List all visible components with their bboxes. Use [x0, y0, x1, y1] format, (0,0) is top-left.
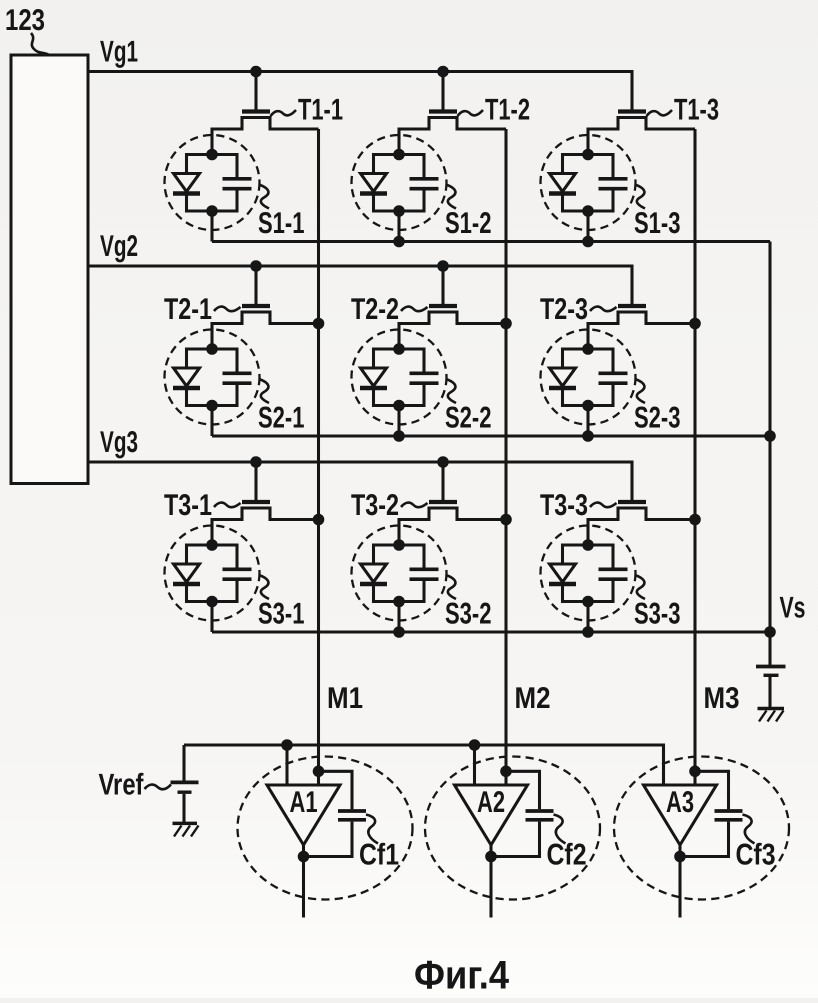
capacitor S1-3 top lead — [611, 153, 614, 178]
capacitor S3-1 top lead — [235, 544, 238, 569]
squiggle Cf1 — [366, 815, 378, 844]
wire S1-2 top branch — [374, 153, 425, 156]
label T3-3 — [540, 489, 588, 522]
node dot S1-1 top — [206, 149, 218, 161]
photodiode S1-2 cathode lead — [372, 196, 375, 213]
node dot T2-3 drain to M3 — [689, 318, 701, 330]
svg-text:T3-3: T3-3 — [540, 489, 588, 522]
wire S1-3 top branch — [563, 153, 614, 156]
ground Vref hatches — [174, 826, 199, 837]
svg-text:T2-2: T2-2 — [351, 293, 399, 326]
capacitor Cf3 top plate — [715, 809, 743, 813]
wire S2-2 top branch — [374, 347, 425, 350]
wire S2-1 top branch — [187, 347, 238, 350]
photodiode S3-3 cathode lead — [561, 586, 564, 603]
label Cf1 — [359, 839, 399, 872]
wire S3-2 top branch — [374, 543, 425, 546]
photodiode S2-3 cathode lead — [561, 390, 564, 407]
photodiode S1-1 cathode bar — [173, 191, 200, 195]
node dot Vg2-col1 — [250, 260, 262, 272]
svg-text:Cf1: Cf1 — [359, 839, 399, 872]
svg-text:S3-1: S3-1 — [258, 598, 305, 631]
node dot S1-2 top — [393, 149, 405, 161]
wire S3-2 bottom stem — [397, 602, 400, 633]
label S3-2 — [445, 598, 492, 631]
label S3-3 — [634, 598, 681, 631]
node dot T3-3 drain to M3 — [689, 514, 701, 526]
svg-text:S1-3: S1-3 — [634, 207, 681, 240]
wire A2 output — [489, 845, 492, 918]
capacitor S2-2 top lead — [422, 348, 425, 373]
capacitor Cf1 bottom plate — [338, 818, 366, 822]
op-amp A1 triangle — [267, 785, 340, 845]
battery Vref long plate — [171, 781, 199, 785]
svg-text:T2-1: T2-1 — [164, 293, 212, 326]
node dot S3-1 bottom — [206, 596, 218, 608]
wire S1-3 bottom stem — [586, 211, 589, 242]
wire Vref battery to ground — [182, 794, 185, 822]
transistor T2-1 gate bar — [242, 304, 270, 308]
label S1-2 — [445, 207, 492, 240]
node dot S3-3 top — [582, 539, 594, 551]
sensor S1-3 dashed circle — [541, 135, 636, 230]
svg-text:Cf2: Cf2 — [547, 839, 587, 872]
capacitor S3-2 bottom plate — [410, 577, 439, 581]
photodiode S2-2 anode lead — [372, 348, 375, 369]
transistor T1-2 gate bar — [429, 109, 457, 113]
squiggle Cf3 — [743, 815, 755, 844]
svg-text:T1-2: T1-2 — [485, 94, 530, 127]
capacitor Cf1 top plate — [338, 809, 366, 813]
label M3 — [704, 682, 740, 715]
wire M1 column line — [317, 129, 320, 785]
squiggle Cf2 — [554, 815, 566, 844]
battery Vs short plate — [764, 674, 779, 677]
squiggle S2-2 — [446, 379, 456, 403]
capacitor S2-3 bottom plate — [599, 381, 628, 385]
svg-text:M1: M1 — [327, 682, 363, 715]
squiggle S3-3 — [635, 575, 645, 599]
sensor S1-1 dashed circle — [165, 135, 260, 230]
svg-text:Vg3: Vg3 — [100, 426, 138, 459]
ground Vref bar — [173, 822, 198, 826]
wire S2-2 bottom branch — [374, 404, 425, 407]
wire S1-2 bottom stem — [397, 211, 400, 242]
sensor S2-3 dashed circle — [541, 330, 636, 425]
photodiode S3-2 cathode lead — [372, 586, 375, 603]
capacitor S3-2 top plate — [410, 567, 439, 571]
capacitor S3-3 bottom lead — [611, 581, 614, 603]
wire gate stem T1-1 — [254, 72, 257, 110]
node dot S3-2 bottom — [393, 596, 405, 608]
node dot S2-3 bottom — [582, 400, 594, 412]
label A3 — [666, 786, 694, 819]
photodiode S3-1 triangle — [174, 564, 200, 582]
squiggle T1-1 — [271, 110, 297, 116]
squiggle S2-3 — [635, 379, 645, 403]
svg-text:T3-2: T3-2 — [351, 489, 399, 522]
node dot S3-3 bottom — [582, 596, 594, 608]
label S1-3 — [634, 207, 681, 240]
squiggle T1-3 — [647, 110, 673, 116]
wire sensor-bias row 1 — [212, 240, 770, 243]
photodiode S3-2 anode lead — [372, 544, 375, 565]
label Vg2 — [100, 230, 138, 263]
svg-text:S3-2: S3-2 — [445, 598, 492, 631]
svg-text:T1-3: T1-3 — [674, 94, 719, 127]
capacitor S2-3 top lead — [611, 348, 614, 373]
capacitor S1-3 bottom plate — [599, 187, 628, 191]
svg-text:T1-1: T1-1 — [298, 94, 343, 127]
node dot S1-2 bottom — [393, 205, 405, 217]
wire S3-2 bottom branch — [374, 600, 425, 603]
wire Cf3 feedback bottom — [680, 822, 729, 857]
node dot S1-1 bottom — [206, 205, 218, 217]
photodiode S2-3 triangle — [550, 368, 576, 386]
capacitor S3-3 bottom plate — [599, 577, 628, 581]
wire M2 column line — [504, 129, 507, 785]
wire S3-1 bottom branch — [187, 600, 238, 603]
capacitor S3-1 top plate — [223, 567, 252, 571]
capacitor S2-3 bottom lead — [611, 385, 614, 407]
label S2-1 — [258, 402, 305, 435]
node dot A3 output — [674, 851, 686, 863]
capacitor S2-3 top plate — [599, 371, 628, 375]
svg-text:T2-3: T2-3 — [540, 293, 588, 326]
label T1-2 — [485, 94, 530, 127]
wire Cf2 feedback top — [506, 771, 540, 809]
wire gate stem T2-2 — [441, 266, 444, 304]
label T1-3 — [674, 94, 719, 127]
node dot S1-3 bottom — [582, 205, 594, 217]
capacitor S3-2 top lead — [422, 544, 425, 569]
op-amp A2 triangle — [455, 785, 528, 845]
capacitor S2-2 bottom plate — [410, 381, 439, 385]
label 123 — [5, 4, 45, 37]
label Vg3 — [100, 426, 138, 459]
transistor T3-3 gate bar — [618, 500, 646, 504]
transistor T2-3 gate bar — [618, 304, 646, 308]
wire Vref stub A3 — [662, 745, 665, 786]
photodiode S3-1 anode lead — [185, 544, 188, 565]
node dot S2-1 bottom — [206, 400, 218, 412]
transistor T2-2 gate bar — [429, 304, 457, 308]
label Vs — [780, 592, 806, 625]
capacitor S3-3 top plate — [599, 567, 628, 571]
photodiode S2-1 anode lead — [185, 348, 188, 369]
transistor T2-2 channel and leads — [399, 312, 506, 349]
node dot bias row 2 col3 — [582, 430, 594, 442]
node dot bias row 1 col2 — [393, 236, 405, 248]
wire Cf1 feedback bottom — [304, 822, 353, 857]
node dot M3 input A3 — [689, 766, 701, 778]
transistor T3-3 channel and leads — [588, 508, 695, 545]
photodiode S1-2 anode lead — [372, 153, 375, 174]
photodiode S2-1 triangle — [174, 368, 200, 386]
node dot bias row 2 Vs rail — [764, 430, 776, 442]
node dot T2-1 drain to M1 — [313, 318, 325, 330]
capacitor S1-3 bottom lead — [611, 191, 614, 213]
node dot bias row 2 col2 — [393, 430, 405, 442]
caption Фиг.4 — [414, 954, 510, 998]
transistor T2-3 channel and leads — [588, 312, 695, 349]
node dot bias row 3 col3 — [582, 626, 594, 638]
wire gate stem T3-2 — [441, 462, 444, 500]
node dot S3-1 top — [206, 539, 218, 551]
capacitor S3-1 bottom plate — [223, 577, 252, 581]
wire S3-1 bottom stem — [210, 602, 213, 633]
label A1 — [290, 786, 318, 819]
label S2-3 — [634, 402, 681, 435]
squiggle T3-1 — [214, 503, 241, 508]
wire S2-3 bottom stem — [586, 406, 589, 437]
wire S1-3 bottom branch — [563, 209, 614, 212]
wire S3-3 bottom stem — [586, 602, 589, 633]
svg-text:S1-1: S1-1 — [258, 207, 305, 240]
label S2-2 — [445, 402, 492, 435]
svg-text:123: 123 — [5, 4, 45, 37]
svg-text:S2-2: S2-2 — [445, 402, 492, 435]
node dot S2-1 top — [206, 343, 218, 355]
transistor T1-3 gate bar — [618, 109, 646, 113]
svg-text:T3-1: T3-1 — [164, 489, 212, 522]
node dot A1 output — [298, 851, 310, 863]
capacitor S1-1 bottom plate — [223, 187, 252, 191]
label T1-1 — [298, 94, 343, 127]
label T2-1 — [164, 293, 212, 326]
capacitor S1-3 top plate — [599, 177, 628, 181]
node dot Vg1-col1 — [250, 66, 262, 78]
capacitor S1-2 bottom plate — [410, 187, 439, 191]
wire Vref stub A2 — [473, 745, 476, 786]
photodiode S1-3 triangle — [550, 174, 576, 192]
node dot T3-2 drain to M2 — [500, 514, 512, 526]
svg-text:Cf3: Cf3 — [736, 839, 776, 872]
capacitor S3-1 bottom lead — [235, 581, 238, 603]
wire Vs battery to ground — [768, 677, 771, 707]
amplifier A2 dashed ellipse — [425, 757, 600, 900]
squiggle T3-2 — [401, 503, 428, 508]
node dot Vg3-col1 — [250, 456, 262, 468]
photodiode S1-3 cathode lead — [561, 196, 564, 213]
squiggle T2-2 — [401, 307, 428, 312]
capacitor S3-3 top lead — [611, 544, 614, 569]
node dot M2 input A2 — [500, 766, 512, 778]
sensor S2-2 dashed circle — [352, 330, 447, 425]
wire sensor-bias row 3 — [212, 630, 770, 633]
squiggle T2-1 — [214, 307, 241, 312]
node dot Vref to A2 — [469, 739, 481, 751]
squiggle S3-1 — [259, 575, 269, 599]
photodiode S2-2 cathode bar — [360, 386, 387, 390]
photodiode S1-1 cathode lead — [185, 196, 188, 213]
wire S2-2 bottom stem — [397, 406, 400, 437]
wire S2-3 top branch — [563, 347, 614, 350]
squiggle S1-2 — [446, 185, 456, 209]
node dot T2-2 drain to M2 — [500, 318, 512, 330]
photodiode S3-1 cathode lead — [185, 586, 188, 603]
capacitor S1-2 top lead — [422, 153, 425, 178]
wire S3-3 top branch — [563, 543, 614, 546]
node dot bias row 1 col3 — [582, 236, 594, 248]
label T3-2 — [351, 489, 399, 522]
svg-text:S1-2: S1-2 — [445, 207, 492, 240]
photodiode S3-3 cathode bar — [549, 582, 576, 586]
capacitor S2-1 top plate — [223, 371, 252, 375]
squiggle T1-2 — [458, 110, 484, 116]
wire S1-1 bottom stem — [210, 211, 213, 242]
svg-text:A1: A1 — [290, 786, 318, 819]
svg-text:M3: M3 — [704, 682, 740, 715]
transistor T1-1 gate bar — [242, 109, 270, 113]
capacitor S2-1 top lead — [235, 348, 238, 373]
svg-text:Vg2: Vg2 — [100, 230, 138, 263]
node dot S2-2 bottom — [393, 400, 405, 412]
squiggle S3-2 — [446, 575, 456, 599]
label A2 — [477, 786, 505, 819]
squiggle S2-1 — [259, 379, 269, 403]
photodiode S2-1 cathode bar — [173, 386, 200, 390]
gate driver block 123 — [11, 55, 88, 484]
capacitor Cf2 bottom plate — [526, 818, 554, 822]
sensor S2-1 dashed circle — [165, 330, 260, 425]
photodiode S2-1 cathode lead — [185, 390, 188, 407]
pointer squiggle for 123 — [31, 33, 49, 55]
capacitor S1-1 top lead — [235, 153, 238, 178]
photodiode S2-2 triangle — [361, 368, 387, 386]
photodiode S1-2 cathode bar — [360, 191, 387, 195]
wire M3 column line — [693, 129, 696, 785]
svg-text:Vs: Vs — [780, 592, 806, 625]
photodiode S2-3 cathode bar — [549, 386, 576, 390]
wire Vg3 gate line — [88, 462, 632, 500]
amplifier A1 dashed ellipse — [238, 757, 413, 900]
capacitor S1-2 bottom lead — [422, 191, 425, 213]
photodiode S1-1 triangle — [174, 174, 200, 192]
wire S1-2 bottom branch — [374, 209, 425, 212]
capacitor S2-1 bottom lead — [235, 385, 238, 407]
photodiode S3-1 cathode bar — [173, 582, 200, 586]
capacitor S1-1 top plate — [223, 177, 252, 181]
photodiode S3-2 cathode bar — [360, 582, 387, 586]
wire Vs rail — [768, 242, 771, 666]
photodiode S3-3 triangle — [550, 564, 576, 582]
capacitor S1-1 bottom lead — [235, 191, 238, 213]
svg-text:S3-3: S3-3 — [634, 598, 681, 631]
transistor T3-1 gate bar — [242, 500, 270, 504]
svg-text:A2: A2 — [477, 786, 505, 819]
node dot Vg3-col2 — [437, 456, 449, 468]
wire A3 output — [678, 845, 681, 918]
sensor S3-1 dashed circle — [165, 526, 260, 621]
wire gate stem T3-1 — [254, 462, 257, 500]
label Cf3 — [736, 839, 776, 872]
capacitor S2-1 bottom plate — [223, 381, 252, 385]
transistor T1-2 channel and leads — [399, 118, 506, 155]
photodiode S1-3 cathode bar — [549, 191, 576, 195]
node dot Vg1-col2 — [437, 66, 449, 78]
wire Cf2 feedback bottom — [491, 822, 540, 857]
transistor T1-1 channel and leads — [212, 118, 319, 155]
node dot S2-2 top — [393, 343, 405, 355]
capacitor Cf3 bottom plate — [715, 818, 743, 822]
wire A1 output — [302, 845, 305, 918]
squiggle S1-3 — [635, 185, 645, 209]
wire S2-1 bottom branch — [187, 404, 238, 407]
node dot Vref to A1 — [281, 739, 293, 751]
wire gate stem T2-1 — [254, 266, 257, 304]
ground Vs bar — [758, 707, 785, 711]
squiggle T3-3 — [590, 503, 617, 508]
node dot S1-3 top — [582, 149, 594, 161]
wire S3-3 bottom branch — [563, 600, 614, 603]
photodiode S3-2 triangle — [361, 564, 387, 582]
wire Vg2 gate line — [88, 266, 632, 304]
svg-text:Vg1: Vg1 — [100, 36, 138, 69]
wire Vref stub A1 — [285, 745, 288, 786]
squiggle T2-3 — [590, 307, 617, 312]
svg-text:S2-3: S2-3 — [634, 402, 681, 435]
svg-text:S2-1: S2-1 — [258, 402, 305, 435]
node dot M1 input A1 — [313, 766, 325, 778]
sensor S3-3 dashed circle — [541, 526, 636, 621]
transistor T3-1 channel and leads — [212, 508, 319, 545]
svg-text:Vref: Vref — [99, 769, 145, 802]
sensor S3-2 dashed circle — [352, 526, 447, 621]
op-amp A3 triangle — [644, 785, 717, 845]
node dot S2-3 top — [582, 343, 594, 355]
node dot S3-2 top — [393, 539, 405, 551]
wire Vref battery lead — [182, 745, 185, 781]
squiggle S1-1 — [259, 185, 269, 209]
capacitor S3-2 bottom lead — [422, 581, 425, 603]
photodiode S2-3 anode lead — [561, 348, 564, 369]
capacitor S2-2 bottom lead — [422, 385, 425, 407]
transistor T3-2 gate bar — [429, 500, 457, 504]
photodiode S1-3 anode lead — [561, 153, 564, 174]
node dot bias row 3 col2 — [393, 626, 405, 638]
transistor T1-3 channel and leads — [588, 118, 695, 155]
ground Vs hatches — [759, 711, 784, 722]
amplifier A3 dashed ellipse — [614, 757, 789, 900]
label S1-1 — [258, 207, 305, 240]
capacitor S1-2 top plate — [410, 177, 439, 181]
battery Vs long plate — [756, 665, 786, 669]
svg-text:A3: A3 — [666, 786, 694, 819]
label Cf2 — [547, 839, 587, 872]
label M1 — [327, 682, 363, 715]
label S3-1 — [258, 598, 305, 631]
transistor T3-2 channel and leads — [399, 508, 506, 545]
label T2-3 — [540, 293, 588, 326]
wire S3-1 top branch — [187, 543, 238, 546]
node dot Vg2-col2 — [437, 260, 449, 272]
node dot T3-1 drain to M1 — [313, 514, 325, 526]
wire S1-1 top branch — [187, 153, 238, 156]
photodiode S3-3 anode lead — [561, 544, 564, 565]
wire S2-1 bottom stem — [210, 406, 213, 437]
capacitor S2-2 top plate — [410, 371, 439, 375]
wire Vg1 gate line — [88, 72, 632, 110]
transistor T2-1 channel and leads — [212, 312, 319, 349]
capacitor Cf2 top plate — [526, 809, 554, 813]
node dot A2 output — [485, 851, 497, 863]
label Vref — [99, 769, 145, 802]
squiggle Vref — [145, 785, 172, 790]
wire Cf1 feedback top — [319, 771, 353, 809]
sensor S1-2 dashed circle — [352, 135, 447, 230]
wire sensor-bias row 2 — [212, 434, 770, 437]
